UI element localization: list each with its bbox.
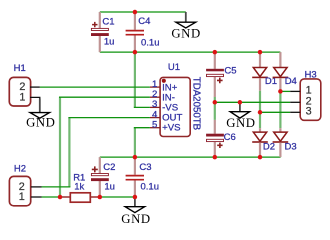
svg-text:GND: GND (121, 212, 150, 226)
svg-text:H1: H1 (14, 63, 26, 74)
svg-text:0.1u: 0.1u (141, 181, 160, 192)
junction C5 top on -VS rail (213, 50, 218, 55)
diode D2 (252, 128, 275, 157)
svg-text:C4: C4 (138, 16, 150, 27)
svg-text:1: 1 (19, 91, 25, 103)
ground H1 (26, 99, 55, 130)
svg-text:C6: C6 (224, 132, 236, 143)
wire H1.2 to U1 pin1 (40, 86, 150, 88)
svg-text:3: 3 (306, 106, 312, 118)
wire D4 node to H3 pin1 (280, 90, 290, 92)
svg-text:C5: C5 (224, 66, 236, 77)
svg-text:0.1u: 0.1u (141, 37, 160, 48)
vertical wire node to U1 pin2 (59, 97, 61, 197)
H1 pin 1 stub to ground (30, 97, 40, 99)
vertical wire U1 pin5 drop to -rail (134, 128, 136, 157)
junction C2 bottom on input wire (98, 195, 103, 200)
wire node to U1 pin2 horizontal (59, 96, 150, 98)
H2 pin 1 stub (31, 196, 42, 198)
junction C4 bottom on -VS rail (133, 50, 138, 55)
junction C6 bottom on bottom rail (213, 155, 218, 160)
junction pin2 riser on input wire (58, 195, 63, 200)
svg-text:D4: D4 (285, 76, 297, 87)
junction D2 cathode on bottom rail (258, 155, 263, 160)
H3 pin 2 stub (290, 101, 300, 103)
svg-text:C2: C2 (103, 162, 115, 173)
U1 pin 4 stub (150, 117, 160, 119)
svg-text:GND: GND (26, 116, 55, 130)
H2 pin 2 stub (31, 186, 42, 188)
svg-text:D2: D2 (263, 142, 275, 153)
junction ground tap on H3 pin2 net (238, 100, 243, 105)
svg-text:U1: U1 (168, 62, 180, 73)
junction D1 anode on -VS rail (258, 50, 263, 55)
junction C4 top on GND rail (133, 10, 138, 15)
vertical wire C4 to U1 pin3 (134, 52, 136, 107)
svg-text:D3: D3 (285, 142, 297, 153)
wire top GND rail (100, 11, 186, 13)
ground top (171, 12, 200, 40)
vertical wire H2.2 riser to U1 pin4 (68, 118, 70, 187)
capacitor C2 (91, 157, 115, 197)
wire bottom -rail (100, 156, 281, 158)
svg-text:1u: 1u (104, 181, 115, 192)
svg-text:1u: 1u (104, 36, 115, 47)
wire riser to U1 pin4 horizontal (68, 117, 149, 119)
U1 pin-1 marker dot (162, 79, 166, 83)
op-amp U1 TDA2050TB (150, 62, 201, 136)
vertical wire C5 C6 link (214, 97, 216, 120)
svg-text:+VS: +VS (162, 123, 180, 134)
connector H3 (290, 70, 321, 121)
H1 pin 2 stub (30, 86, 40, 88)
capacitor C3 (126, 157, 159, 197)
wire -VS rail (100, 51, 281, 53)
U1 pin 1 stub (150, 86, 160, 88)
wire H2.1 to R1 (42, 196, 61, 198)
U1 pin 5 stub (150, 127, 160, 129)
svg-text:TDA2050TB: TDA2050TB (190, 77, 201, 130)
svg-text:5: 5 (152, 119, 157, 130)
vertical wire D1 D2 midlink (259, 91, 261, 129)
capacitor C6 (206, 120, 236, 157)
junction C5 C6 midpoint node (213, 100, 218, 105)
wire U1 pin5 horizontal (134, 127, 150, 129)
U1 pin 3 stub (150, 106, 160, 108)
svg-text:C1: C1 (102, 16, 114, 27)
svg-text:1k: 1k (74, 182, 84, 193)
capacitor C4 (126, 12, 160, 52)
junction D1 D2 node to H3 pin3 (258, 110, 263, 115)
wire GND net to H3 pin2 (215, 101, 290, 103)
svg-text:1: 1 (19, 191, 25, 203)
H3 pin 3 stub (290, 111, 300, 113)
U1 pin 2 stub (150, 96, 160, 98)
H3 pin 1 stub (290, 90, 300, 92)
svg-text:H2: H2 (14, 164, 26, 175)
capacitor C1 (91, 12, 115, 52)
ground C3 (121, 197, 150, 226)
wire D1 D2 node to H3 pin3 (260, 111, 290, 113)
svg-text:C3: C3 (139, 162, 151, 173)
connector H2 (9, 164, 41, 206)
resistor R1 (61, 173, 100, 203)
wire H2.2 horizontal (42, 186, 71, 188)
svg-text:GND: GND (171, 26, 200, 40)
svg-text:GND: GND (226, 116, 255, 130)
junction C3 pin5 riser on bottom rail (133, 155, 138, 160)
diode D1 (252, 52, 277, 91)
wire pin3 stub run (134, 106, 150, 108)
wire R1 to C2 C3 (100, 196, 135, 198)
diode D3 (273, 128, 297, 157)
junction D4 D3 node to H3 pin1 (278, 89, 283, 94)
ground center (226, 102, 255, 130)
vertical wire D4 D3 midlink (279, 91, 281, 128)
capacitor C5 (206, 52, 236, 97)
connector H1 (9, 63, 40, 106)
diode D4 (273, 52, 297, 91)
junction C3 bottom at ground node (133, 195, 138, 200)
